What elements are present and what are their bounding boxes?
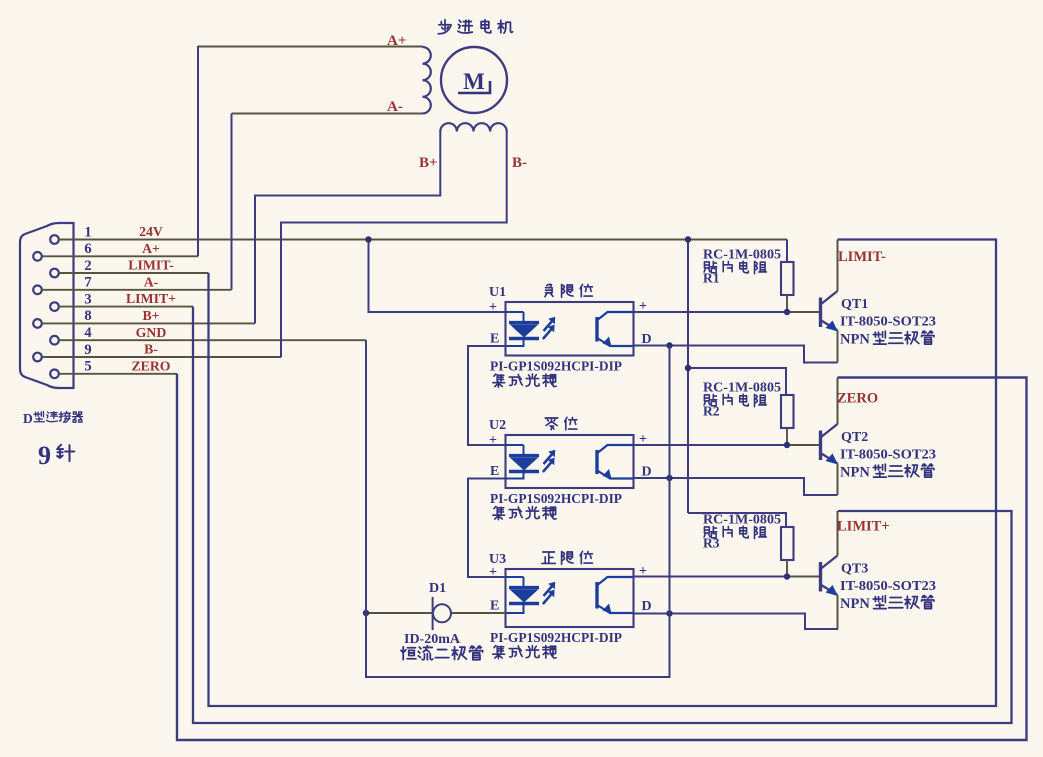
- wire B- from pin 9: [281, 130, 507, 357]
- svg-text:E: E: [490, 599, 499, 614]
- wire R1 top stub: [786, 240, 788, 263]
- junction U1.D/GND bus: [666, 342, 672, 348]
- inductor LB (phase B winding): [440, 123, 457, 131]
- svg-text:B+: B+: [142, 308, 159, 323]
- connector J1 (DB9 shell): [20, 223, 74, 388]
- svg-text:ZERO: ZERO: [131, 358, 170, 373]
- wire bus to R2 top: [688, 368, 786, 395]
- diode D1 (current regulator): [433, 604, 451, 622]
- wire QT3 base feed: [787, 576, 821, 578]
- wire U3.D to QT3 emitter: [634, 614, 839, 630]
- svg-text:9: 9: [38, 441, 51, 470]
- junction D1/GND: [363, 610, 369, 616]
- transistor QT3: [819, 562, 822, 592]
- svg-text:+: +: [489, 300, 497, 315]
- wire D1 to GND bus: [366, 612, 433, 614]
- resistor R2: [781, 395, 794, 428]
- wire B+ from pin 8: [255, 130, 440, 323]
- resistor R1: [781, 262, 794, 295]
- svg-text:B+: B+: [419, 155, 438, 171]
- svg-text:8: 8: [84, 308, 91, 324]
- inductor LA (phase A winding): [423, 47, 431, 64]
- wire pin 4 row (GND): [59, 339, 366, 341]
- svg-text:NPN: NPN: [840, 596, 870, 612]
- connector pin 4 circle: [50, 336, 59, 345]
- opto U2 phototransistor: [595, 450, 598, 474]
- svg-text:M: M: [463, 69, 485, 94]
- svg-text:E: E: [490, 464, 499, 479]
- svg-text:ZERO: ZERO: [837, 391, 878, 407]
- wire QT2 collector: [837, 378, 839, 425]
- junction R/base (QT2): [784, 442, 790, 448]
- wire pin 8 row (B+): [42, 322, 255, 324]
- connector pin 9 circle: [33, 353, 42, 362]
- opto U3 function title: [542, 552, 556, 563]
- wire QT2 base feed: [787, 444, 821, 446]
- wire LIMIT+ rail (QT3 collector loop): [193, 307, 1012, 723]
- connector pin 8 circle: [33, 319, 42, 328]
- svg-text:LIMIT+: LIMIT+: [837, 519, 890, 535]
- wire ZERO rail (QT2 collector loop): [177, 374, 1027, 740]
- resistor R1 bottom stub: [786, 295, 788, 312]
- wire A+ terminal: [198, 46, 423, 48]
- svg-text:RC-1M-0805: RC-1M-0805: [703, 512, 781, 527]
- opto U2 LED: [523, 445, 525, 454]
- svg-text:PI-GP1S092HCPI-DIP: PI-GP1S092HCPI-DIP: [490, 491, 622, 506]
- wire pin 3 row (LIMIT+): [59, 306, 193, 308]
- wire A- terminal: [232, 113, 424, 115]
- wire 24V bus vertical x688: [687, 240, 689, 514]
- svg-text:A+: A+: [387, 33, 406, 49]
- opto U2 function title: [545, 418, 558, 430]
- label 恒流二极管: [401, 647, 416, 660]
- svg-text:QT3: QT3: [841, 562, 868, 577]
- junction 24V/U1: [365, 236, 371, 242]
- motor circle M1: [441, 47, 507, 113]
- svg-text:A-: A-: [144, 274, 159, 289]
- wire U3.E to D1: [451, 612, 506, 614]
- wire QT1 collector: [837, 240, 839, 292]
- wire U3.+out to R3 junction: [634, 576, 787, 578]
- resistor R3: [781, 527, 794, 560]
- wire pin 2 row (LIMIT-): [59, 272, 209, 274]
- svg-text:R1: R1: [703, 271, 720, 286]
- connector pin 3 circle: [50, 302, 59, 311]
- svg-text:9: 9: [84, 342, 91, 358]
- opto U1 light arrows: [544, 320, 554, 331]
- wire QT3 emitter: [837, 595, 839, 629]
- svg-text:5: 5: [84, 359, 91, 375]
- resistor R3 bottom stub: [786, 560, 788, 577]
- wire U1.E to U2.+: [468, 346, 506, 445]
- junction U2.D/GND bus: [666, 475, 672, 481]
- label 贴片电阻 (R3): [704, 526, 717, 537]
- svg-text:RC-1M-0805: RC-1M-0805: [703, 380, 781, 395]
- svg-text:U1: U1: [489, 285, 506, 300]
- opto U3 label 集成光耦: [493, 646, 505, 659]
- label 步进电机 (stepper motor title): [438, 20, 451, 34]
- opto U3 phototransistor: [595, 582, 598, 609]
- wire bus to R3 top: [688, 513, 786, 527]
- svg-text:1: 1: [84, 224, 91, 240]
- svg-text:A+: A+: [142, 241, 160, 256]
- wire LIMIT- rail (QT1 collector loop): [209, 240, 997, 707]
- svg-text:D1: D1: [429, 581, 446, 596]
- transistor QT2: [819, 431, 822, 461]
- svg-text:RC-1M-0805: RC-1M-0805: [703, 247, 781, 262]
- wire U2.D to QT2 emitter: [634, 478, 838, 495]
- wire pin 1 row (24V): [59, 239, 787, 241]
- svg-text:IT-8050-SOT23: IT-8050-SOT23: [840, 578, 936, 593]
- wire pin 9 row (B-): [42, 356, 281, 358]
- svg-text:PI-GP1S092HCPI-DIP: PI-GP1S092HCPI-DIP: [490, 359, 622, 374]
- svg-text:4: 4: [84, 325, 91, 341]
- opto U1 box: [506, 302, 634, 356]
- connector pin 5 circle: [50, 370, 59, 379]
- opto U2 box: [506, 435, 634, 488]
- wire U1.+out to R1 junction: [634, 311, 788, 313]
- connector pin 7 circle: [33, 286, 42, 295]
- svg-text:D: D: [23, 411, 33, 426]
- svg-text:LIMIT-: LIMIT-: [838, 249, 886, 265]
- opto U3 light arrows: [544, 585, 554, 596]
- wire pin 6 row (A+): [42, 255, 198, 257]
- junction R/base (QT3): [784, 573, 790, 579]
- svg-text:GND: GND: [136, 325, 167, 340]
- wire GND from pin 4: [366, 340, 670, 677]
- svg-text:QT1: QT1: [841, 297, 868, 312]
- svg-text:A-: A-: [387, 99, 403, 115]
- connector pin 2 circle: [50, 269, 59, 278]
- wire A- vertical from pin 7: [231, 114, 233, 290]
- motor underline symbol: [458, 81, 490, 93]
- svg-text:IT-8050-SOT23: IT-8050-SOT23: [840, 314, 936, 329]
- opto U3 LED: [523, 577, 525, 586]
- svg-text:U2: U2: [489, 418, 506, 433]
- svg-text:B-: B-: [512, 155, 527, 171]
- svg-text:ID-20mA: ID-20mA: [404, 632, 461, 647]
- svg-text:R3: R3: [703, 536, 720, 551]
- wire U2.E to U3.+: [468, 479, 506, 578]
- label 贴片电阻 (R2): [704, 394, 717, 405]
- opto U1 phototransistor: [595, 317, 598, 342]
- svg-text:NPN: NPN: [840, 332, 870, 348]
- svg-text:NPN: NPN: [840, 465, 870, 481]
- junction R/base (QT1): [784, 309, 790, 315]
- svg-text:LIMIT+: LIMIT+: [126, 291, 176, 306]
- wire QT3 collector: [837, 511, 839, 556]
- wire U1.D to QT1 emitter: [634, 346, 838, 363]
- junction 24V/bus: [685, 236, 691, 242]
- connector pin 1 circle: [50, 235, 59, 244]
- wire pin 5 row (ZERO): [59, 373, 177, 375]
- svg-text:B-: B-: [144, 342, 158, 357]
- wire A+ vertical from pin 6: [197, 46, 199, 256]
- wire QT1 emitter: [837, 331, 839, 363]
- opto U2 label 集成光耦: [493, 507, 505, 520]
- wire U2.+out to R2 junction: [634, 444, 788, 446]
- svg-text:6: 6: [84, 241, 91, 257]
- svg-text:3: 3: [84, 291, 91, 307]
- connector pin 6 circle: [33, 252, 42, 261]
- wire 24V drop to U1 anode: [369, 240, 506, 313]
- svg-text:QT2: QT2: [841, 430, 868, 445]
- wire QT2 emitter: [837, 464, 839, 496]
- resistor R2 bottom stub: [786, 428, 788, 445]
- svg-text:IT-8050-SOT23: IT-8050-SOT23: [840, 447, 936, 462]
- svg-text:R2: R2: [703, 404, 720, 419]
- opto U1 LED: [523, 312, 525, 321]
- opto U1 function title: [545, 284, 553, 296]
- svg-text:D: D: [642, 599, 652, 614]
- wire pin 7 row (A-): [42, 289, 232, 291]
- svg-text:LIMIT-: LIMIT-: [128, 258, 174, 273]
- svg-text:PI-GP1S092HCPI-DIP: PI-GP1S092HCPI-DIP: [490, 630, 622, 645]
- svg-text:2: 2: [84, 258, 91, 274]
- junction bus/R2 feed: [685, 365, 691, 371]
- transistor QT1: [819, 298, 822, 328]
- junction U3.D/GND bus: [666, 610, 672, 616]
- label 贴片电阻 (R1): [704, 261, 717, 272]
- svg-text:24V: 24V: [139, 224, 163, 239]
- opto U3 box: [506, 569, 634, 627]
- svg-text:7: 7: [84, 275, 91, 291]
- opto U1 label 集成光耦: [493, 374, 505, 387]
- opto U2 light arrows: [544, 453, 554, 464]
- svg-text:E: E: [490, 332, 499, 347]
- wire QT1 base feed: [787, 311, 821, 313]
